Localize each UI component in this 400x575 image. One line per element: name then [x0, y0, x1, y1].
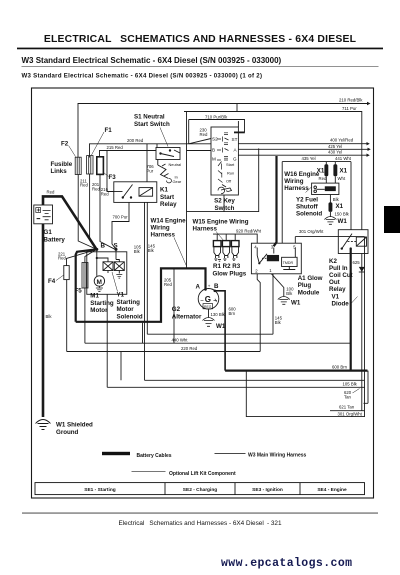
svg-text:710 Pur/Blk: 710 Pur/Blk: [205, 115, 228, 120]
wire W16 box left edge: [281, 162, 283, 243]
svg-text:Out: Out: [329, 279, 340, 286]
wire 400 Yel/Red: [238, 143, 366, 145]
glow plug R1: [213, 234, 221, 261]
title rule: [17, 48, 383, 50]
svg-text:SE4 - Engine: SE4 - Engine: [317, 487, 347, 493]
diode V1: [359, 267, 365, 272]
key switch S2: [211, 121, 245, 195]
svg-text:301 Org/Wht: 301 Org/Wht: [299, 229, 324, 234]
section table: [35, 483, 365, 495]
wire 145 Blk horizontal: [147, 333, 273, 335]
svg-text:Red: Red: [80, 183, 88, 188]
connector X1 (Y2 gnd): [329, 202, 333, 212]
svg-text:F1: F1: [105, 127, 113, 134]
label 201 Red: [92, 182, 100, 191]
svg-text:1: 1: [269, 268, 272, 273]
svg-text:SE3 - Ignition: SE3 - Ignition: [252, 487, 283, 493]
wire A1 pin1 to ground: [271, 274, 283, 297]
solenoid Y1 coils: [97, 258, 125, 278]
svg-text:425 Yel: 425 Yel: [328, 144, 342, 149]
svg-text:W3 Standard Electrical Schemat: W3 Standard Electrical Schematic - 6X4 D…: [22, 73, 263, 80]
wire 200 Red to K1: [146, 144, 148, 182]
svg-text:Red: Red: [319, 176, 327, 181]
switch S1 neutral start: [156, 148, 180, 160]
svg-text:Harness: Harness: [284, 185, 309, 192]
svg-text:700 Pur: 700 Pur: [113, 214, 129, 219]
battery G1: [34, 205, 53, 224]
ground W1 shielded (battery): [36, 420, 51, 430]
wire 425 Yel: [238, 148, 367, 150]
svg-text:Tan: Tan: [344, 394, 352, 399]
svg-text:Red: Red: [101, 191, 109, 196]
wire 200 Red: [90, 144, 212, 158]
label 430 Red: [200, 128, 208, 137]
svg-text:B: B: [214, 283, 219, 290]
svg-text:Harness: Harness: [151, 232, 176, 239]
svg-text:Gear: Gear: [173, 179, 182, 184]
wire F5 top: [85, 249, 97, 262]
svg-text:SE1 - Starting: SE1 - Starting: [84, 487, 116, 493]
svg-text:Run: Run: [227, 171, 234, 176]
wire K2 coil down / V1: [361, 254, 363, 411]
wire M1 ground riser: [106, 294, 108, 387]
label 216 Red: [101, 187, 109, 196]
wire 220 Red: [67, 351, 261, 353]
svg-text:Y1: Y1: [117, 292, 125, 299]
svg-text:440 Wht: 440 Wht: [172, 337, 189, 342]
box right harness: [246, 237, 364, 417]
wire 215 Red: [100, 151, 157, 158]
svg-text:F3: F3: [109, 174, 117, 181]
wire F5 bottom 440 Wht riser: [84, 288, 86, 343]
wire 600 Brn: B terminal down (bold): [216, 291, 225, 371]
svg-text:130 Blk: 130 Blk: [211, 312, 226, 317]
svg-text:Battery Cables: Battery Cables: [137, 453, 172, 459]
legend battery cables: [102, 452, 130, 455]
svg-text:Fusible: Fusible: [51, 161, 73, 168]
label 145 Blk (A1 side): [275, 316, 283, 325]
svg-text:Start Switch: Start Switch: [134, 121, 170, 128]
svg-text:210 Red/Blk: 210 Red/Blk: [339, 98, 363, 103]
svg-text:Blk: Blk: [286, 291, 293, 296]
svg-text:Relay: Relay: [329, 286, 346, 293]
svg-text:M: M: [97, 279, 102, 286]
label 706 Pur: [147, 164, 155, 173]
svg-text:Harness: Harness: [193, 226, 218, 233]
neutral/gear switch: [158, 160, 172, 183]
svg-text:S2: S2: [212, 137, 218, 142]
svg-text:Motor: Motor: [117, 306, 135, 313]
solenoid Y2 fuel shutoff: [312, 183, 339, 194]
wire 620 tan stub: [364, 371, 369, 404]
label 211 Red: [80, 178, 88, 187]
svg-text:5: 5: [293, 244, 296, 249]
node B: [95, 248, 98, 251]
starting motor box: [87, 252, 127, 294]
bus 600 Brn (bold): [225, 370, 367, 372]
svg-text:Red: Red: [58, 256, 66, 261]
svg-text:Motor: Motor: [90, 307, 108, 314]
svg-text:220 Red: 220 Red: [181, 346, 198, 351]
footer rule: [22, 512, 378, 515]
svg-text:W3 Standard Electrical Schemat: W3 Standard Electrical Schematic - 6X4 D…: [22, 56, 282, 65]
wire S2 bottom: [223, 195, 225, 212]
wire 920 Red/Wht: [213, 234, 257, 243]
ground W1 (G2): [203, 318, 215, 327]
svg-text:711 Pur: 711 Pur: [342, 106, 357, 111]
wire F4 top: [67, 249, 97, 265]
wire A1 pin5 to 301 OrgWht: [294, 237, 296, 244]
wire starter box to 440: [142, 323, 144, 343]
svg-text:TMDR: TMDR: [283, 261, 294, 265]
svg-text:W1: W1: [291, 300, 301, 307]
svg-text:Red: Red: [200, 132, 208, 137]
svg-text:Plug: Plug: [298, 282, 312, 289]
svg-text:A1 Glow: A1 Glow: [298, 275, 323, 282]
svg-text:B: B: [101, 243, 106, 250]
battery cable K2 down (thick): [350, 249, 352, 371]
svg-text:G2: G2: [172, 306, 181, 313]
relay K2 pull-in coil cut out: [338, 230, 368, 254]
svg-text:Ground: Ground: [56, 429, 79, 436]
wire Y1 ground riser: [120, 352, 122, 381]
label 205 Red: [164, 278, 172, 287]
alternator G2: [198, 289, 219, 310]
svg-text:200 Red: 200 Red: [127, 138, 144, 143]
svg-text:Start: Start: [160, 194, 174, 201]
wire G2 to ground: [208, 309, 210, 317]
wire 430 Yel: [238, 154, 366, 156]
wire 440 Wht: [85, 342, 351, 344]
svg-text:W14 Engine: W14 Engine: [151, 218, 187, 225]
svg-text:+: +: [208, 284, 211, 289]
svg-text:625: 625: [353, 260, 361, 265]
wire A1 pin2 riser down: [257, 274, 260, 352]
fusible link F3: [97, 157, 104, 175]
ground W1 (A1): [278, 297, 290, 305]
svg-text:Pur: Pur: [147, 168, 154, 173]
svg-text:K2: K2: [329, 258, 337, 265]
svg-text:105 Blk: 105 Blk: [343, 381, 358, 386]
wire B into box: [96, 249, 98, 258]
svg-text:920 Red/Wht: 920 Red/Wht: [236, 228, 262, 233]
battery cable positive (thick): [43, 196, 97, 249]
wire box bottom S2: [187, 148, 259, 211]
wire F4 bottom 220 Red: [66, 280, 68, 352]
bus 105 Blk: [145, 379, 365, 381]
svg-text:Solenoid: Solenoid: [117, 313, 143, 320]
svg-text:Red: Red: [92, 186, 100, 191]
svg-text:F4: F4: [48, 278, 56, 285]
svg-text:Red: Red: [164, 282, 172, 287]
svg-text:Solenoid: Solenoid: [296, 211, 322, 218]
relay K1: [114, 182, 157, 203]
svg-text:Switch: Switch: [215, 205, 235, 212]
battery cable negative to ground (thick): [42, 224, 45, 417]
connector X1 (441): [334, 162, 336, 165]
wire 215 Red to K1: [107, 151, 114, 192]
subtitle rule: [22, 65, 379, 68]
svg-text:W16 Engine: W16 Engine: [284, 171, 320, 178]
svg-text:Starting: Starting: [117, 299, 141, 306]
right edge black tab: [384, 206, 400, 233]
svg-text:REG: REG: [204, 305, 212, 309]
svg-text:SE2 - Charging: SE2 - Charging: [183, 487, 217, 493]
svg-text:Off: Off: [226, 179, 232, 184]
svg-text:W1 Shielded: W1 Shielded: [56, 422, 93, 429]
legend optional lift kit: [132, 470, 166, 473]
module A1 glow plug: [251, 243, 301, 274]
svg-text:B: B: [212, 148, 215, 153]
wire 441 to K2: [350, 162, 352, 230]
label 145 Blk: [148, 244, 156, 253]
svg-text:M1: M1: [90, 293, 99, 300]
svg-text:Alternator: Alternator: [172, 313, 202, 320]
svg-text:Shutoff: Shutoff: [296, 204, 319, 211]
svg-text:Diode: Diode: [332, 301, 350, 308]
svg-text:2: 2: [255, 268, 258, 273]
svg-text:435 Yel: 435 Yel: [302, 156, 316, 161]
svg-text:301 Org/Wht: 301 Org/Wht: [338, 411, 363, 416]
svg-text:www.epcatalogs.com: www.epcatalogs.com: [221, 557, 352, 570]
schematic outer border: [32, 88, 374, 498]
wire 621 Tan: [330, 410, 364, 412]
svg-text:Coil Cut: Coil Cut: [329, 272, 353, 279]
label 221 Red: [58, 251, 66, 260]
svg-text:ELECTRICAL SCHEMATICS AND HAR: ELECTRICAL SCHEMATICS AND HARNESSES - 6X…: [44, 34, 357, 45]
svg-text:R1 R2 R3: R1 R2 R3: [213, 263, 241, 270]
svg-text:W1: W1: [338, 218, 348, 225]
wire S2 left: [187, 150, 212, 152]
svg-text:Links: Links: [51, 168, 68, 175]
wire 210 Red/Blk: [78, 104, 367, 158]
wire A1 pin1/440 riser: [272, 274, 274, 334]
fuse F5: [82, 263, 88, 289]
wire 710 Pur/Blk: [189, 120, 245, 133]
svg-text:150 Blk: 150 Blk: [335, 212, 350, 217]
wire S into box: [115, 249, 117, 259]
wire 205 red vertical: [173, 268, 175, 343]
svg-text:430 Yel: 430 Yel: [328, 150, 342, 155]
svg-text:Red: Red: [47, 190, 55, 195]
battery cable starter bottom (bold): [76, 268, 206, 321]
label 105 Blk: [134, 245, 142, 254]
node S: [115, 248, 118, 251]
svg-text:600 Brn: 600 Brn: [332, 365, 348, 370]
glow plug R3: [231, 234, 239, 261]
svg-text:Battery: Battery: [44, 236, 66, 243]
svg-text:Start: Start: [226, 162, 235, 167]
fusible link F1: [87, 156, 93, 174]
wire Y2 down: [329, 195, 331, 204]
node riser S1 top: [156, 144, 158, 148]
node riser 210 to 711: [236, 104, 238, 112]
svg-text:A: A: [234, 148, 238, 153]
svg-text:Pull In: Pull In: [329, 265, 348, 272]
wire W16 box top / 435 Yel / 441 Wht: [282, 161, 351, 163]
svg-text:W3 Main Wiring Harness: W3 Main Wiring Harness: [248, 453, 307, 459]
wire F3 lower: [100, 174, 115, 249]
svg-text:M: M: [212, 157, 216, 162]
wire F2 lower: [78, 175, 96, 250]
svg-text:G: G: [233, 157, 237, 162]
wire 145 Blk vertical: [146, 202, 148, 334]
ground W1 (Y2): [324, 217, 336, 225]
svg-text:Y2 Fuel: Y2 Fuel: [296, 197, 318, 204]
svg-text:621 Tan: 621 Tan: [339, 405, 355, 410]
svg-text:Blk: Blk: [275, 320, 282, 325]
svg-text:V1: V1: [332, 294, 340, 301]
wire 711 Pur: [184, 112, 362, 230]
wire F1 lower: [90, 174, 97, 249]
svg-text:Module: Module: [298, 289, 320, 296]
svg-text:Electrical Schematics and Har: Electrical Schematics and Harnesses - 6X…: [118, 520, 281, 527]
wire 700 Pur: [112, 202, 129, 249]
motor M1: [94, 276, 104, 286]
svg-text:Glow Plugs: Glow Plugs: [213, 270, 247, 277]
svg-text:Optional Lift Kit Component: Optional Lift Kit Component: [169, 471, 236, 477]
wires X1 to Y2: [326, 176, 335, 183]
svg-text:Blk: Blk: [46, 314, 53, 319]
svg-text:K1: K1: [160, 187, 168, 194]
svg-text:X1: X1: [336, 203, 344, 210]
svg-text:A: A: [196, 284, 201, 291]
svg-text:Blk: Blk: [148, 248, 155, 253]
fusible link F2: [75, 157, 81, 174]
svg-text:Neutral: Neutral: [169, 162, 182, 167]
svg-text:441 Wht: 441 Wht: [335, 156, 352, 161]
battery cable feed to A1 pin3 (thick): [274, 156, 277, 246]
fuse F4: [64, 266, 69, 280]
svg-text:Relay: Relay: [160, 201, 177, 208]
connector X1 (435): [325, 162, 327, 165]
svg-text:X1: X1: [340, 168, 348, 175]
svg-text:400 Yel/Red: 400 Yel/Red: [330, 138, 354, 143]
svg-text:Blk: Blk: [134, 249, 141, 254]
svg-text:G1: G1: [44, 229, 53, 236]
wire 105 Blk vertical: [144, 202, 146, 380]
glow plug R2: [222, 234, 230, 261]
pin labels A1: [254, 244, 296, 273]
svg-text:Wiring: Wiring: [284, 178, 303, 185]
svg-text:ST: ST: [232, 137, 238, 142]
bus 145 Blk / 620 Tan: [107, 386, 365, 388]
svg-text:S2 Key: S2 Key: [214, 198, 235, 205]
svg-text:Blk: Blk: [333, 197, 340, 202]
svg-text:Brn: Brn: [229, 311, 236, 316]
svg-text:Starting: Starting: [90, 300, 114, 307]
svg-text:W15 Engine Wiring: W15 Engine Wiring: [193, 219, 249, 226]
svg-text:215 Red: 215 Red: [107, 145, 124, 150]
svg-text:F2: F2: [61, 141, 69, 148]
svg-text:Wht: Wht: [338, 176, 346, 181]
legend W3 main wiring harness: [215, 452, 246, 455]
svg-text:Wiring: Wiring: [151, 225, 170, 232]
wire 301 Org/Wht top: [295, 236, 364, 238]
wire vertical W14 box edge: [186, 112, 188, 269]
battery cable to starter section (bold elbow): [76, 249, 97, 321]
svg-text:G: G: [205, 295, 211, 304]
svg-text:S1 Neutral: S1 Neutral: [134, 114, 165, 121]
